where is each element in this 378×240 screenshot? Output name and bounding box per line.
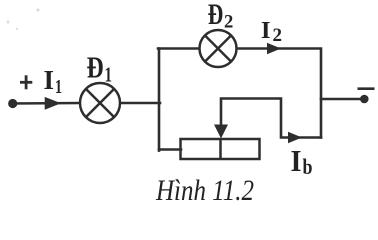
svg-text:Đ: Đ bbox=[87, 50, 104, 85]
wire left junction vertical bbox=[158, 49, 161, 151]
rheostat Rb bbox=[181, 139, 260, 159]
svg-text:I: I bbox=[261, 17, 271, 44]
wire lamp D1 to junction node bbox=[120, 102, 160, 105]
svg-text:2: 2 bbox=[224, 12, 233, 33]
arrow I2 bbox=[267, 43, 281, 54]
lamp D1 bbox=[80, 83, 120, 123]
svg-text:I: I bbox=[291, 143, 302, 178]
node - terminal dot bbox=[360, 95, 369, 104]
rheostat wiper arrow bbox=[214, 125, 228, 139]
wire rheostat wiper to right vertical bbox=[221, 99, 321, 138]
node + terminal dot bbox=[8, 99, 17, 108]
svg-text:Đ: Đ bbox=[208, 0, 224, 31]
wire left vertical to rheostat bbox=[159, 148, 181, 151]
svg-text:b: b bbox=[303, 154, 313, 179]
wire + terminal to lamp D1 bbox=[11, 102, 81, 105]
wire top branch left bbox=[158, 47, 200, 50]
svg-text:I: I bbox=[44, 65, 55, 95]
wire negative terminal bbox=[321, 98, 361, 101]
arrow Ib bbox=[288, 132, 302, 143]
svg-text:Hình 11.2: Hình 11.2 bbox=[155, 174, 254, 207]
minus sign bbox=[358, 87, 375, 90]
arrow I1 bbox=[45, 97, 61, 110]
plus sign bbox=[20, 75, 32, 89]
lamp D2 bbox=[200, 30, 237, 67]
svg-text:1: 1 bbox=[105, 63, 113, 87]
scan specks (decorative) bbox=[37, 9, 40, 12]
svg-text:2: 2 bbox=[273, 25, 283, 46]
svg-text:1: 1 bbox=[55, 76, 62, 98]
wire lamp D2 to right corner bbox=[237, 49, 322, 138]
